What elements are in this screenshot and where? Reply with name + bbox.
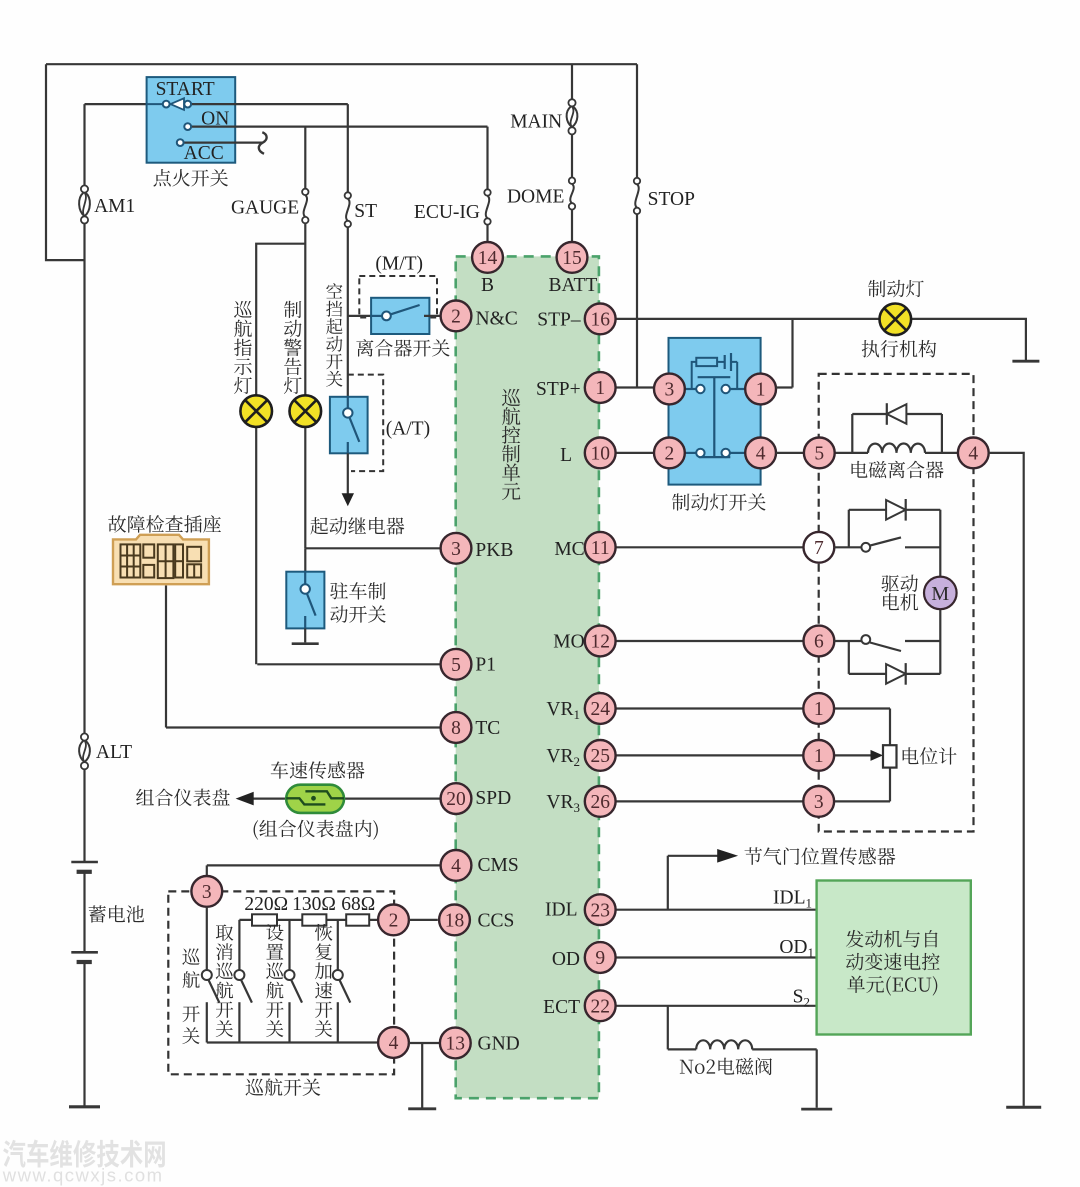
svg-text:130Ω: 130Ω	[292, 894, 336, 915]
svg-text:ECT: ECT	[543, 997, 580, 1018]
svg-text:1: 1	[756, 380, 766, 401]
wire clutch switch to pin2	[424, 315, 441, 317]
cruise indicator lamp 巡航指示灯	[240, 395, 272, 427]
svg-text:ECU-IG: ECU-IG	[414, 202, 480, 223]
svg-text:16: 16	[590, 310, 610, 331]
pin 3 cruise	[191, 876, 222, 907]
svg-text:2: 2	[451, 307, 461, 328]
label 恢复加速开关 vertical	[315, 924, 333, 1037]
ACC wire break squiggle	[259, 132, 267, 154]
ignition ACC contact	[177, 139, 184, 146]
wire clutch switch branch	[348, 315, 371, 317]
svg-text:13: 13	[446, 1034, 466, 1055]
parking brake contact and blade	[307, 594, 316, 616]
arrow potentiometer wiper	[871, 750, 884, 761]
speed sensor 车速传感器 box	[286, 785, 344, 813]
pin 15 BATT	[557, 242, 588, 273]
ground parking brake switch	[292, 642, 319, 645]
svg-text:8: 8	[451, 718, 461, 739]
wire GAUGE to warning lamps	[256, 223, 305, 395]
pin 12 MO	[585, 626, 616, 657]
arrow to starter relay	[342, 493, 354, 506]
wire electromagnetic clutch row	[835, 414, 958, 453]
svg-text:3: 3	[665, 380, 675, 401]
pin 25 VR2	[585, 740, 616, 771]
svg-text:www.qcwxjs.com: www.qcwxjs.com	[2, 1165, 164, 1186]
svg-text:ALT: ALT	[96, 742, 132, 763]
pin 1 brake switch	[745, 374, 776, 405]
pin 4 brake switch	[745, 438, 776, 469]
wire left frame down to AM1 line	[46, 64, 85, 260]
svg-text:23: 23	[590, 900, 610, 921]
brake warning lamp 制动警告灯	[290, 395, 322, 427]
wire cruise indicator lamp down to P1 line	[255, 427, 257, 665]
wire SPD row	[344, 797, 441, 799]
A/T switch contact and blade	[350, 418, 360, 442]
pin 4 cruise	[378, 1027, 409, 1058]
svg-text:DOME: DOME	[507, 187, 564, 208]
svg-text:9: 9	[595, 948, 605, 969]
label 节气门位置传感器	[745, 847, 896, 865]
svg-text:20: 20	[446, 789, 466, 810]
fuse MAIN	[568, 99, 575, 106]
wire OD row	[616, 956, 817, 958]
wire MO row	[616, 640, 804, 642]
pin 14 B	[472, 242, 503, 273]
drive motor M circle	[924, 577, 957, 610]
label ECU text	[846, 930, 938, 948]
wire brake warning lamp down to PKB junction	[304, 427, 306, 549]
pin 9 OD	[585, 942, 616, 973]
label 执行机构	[862, 340, 936, 358]
wire CCS row	[409, 919, 438, 921]
pin 4 clutch right	[958, 438, 989, 469]
svg-text:M: M	[931, 583, 949, 605]
pin 2 brake switch	[654, 438, 685, 469]
svg-text:MAIN: MAIN	[510, 112, 562, 133]
svg-text:GAUGE: GAUGE	[231, 197, 299, 218]
svg-text:4: 4	[451, 856, 461, 877]
wire N&C row	[440, 315, 442, 317]
pin 20 SPD	[441, 783, 472, 814]
svg-text:GND: GND	[478, 1034, 520, 1055]
ground brake light	[1012, 360, 1039, 363]
svg-text:5: 5	[451, 655, 461, 676]
wire ECT row	[616, 1005, 817, 1007]
svg-text:68Ω: 68Ω	[341, 894, 375, 915]
label 驻车制动开关	[330, 582, 385, 599]
arrow to throttle position sensor	[717, 849, 738, 863]
label 车速传感器	[271, 761, 365, 779]
wire CMS row	[207, 865, 441, 876]
actuator dashed box	[819, 374, 974, 832]
svg-text:26: 26	[590, 792, 610, 813]
label 巡航指示灯 vertical	[234, 301, 252, 394]
inductor 电磁离合器	[868, 444, 925, 453]
svg-text:PKB: PKB	[475, 540, 513, 561]
pin 2 cruise	[378, 905, 409, 936]
svg-text:15: 15	[562, 248, 582, 269]
wire IDL row	[616, 856, 817, 910]
wire top bus from ignition frame to STOP	[46, 63, 637, 65]
wire PKB row	[305, 547, 440, 549]
pin 3 pot bottom	[803, 786, 834, 817]
wire STP- row to brake light and ground	[616, 319, 1026, 388]
svg-text:4: 4	[968, 444, 978, 465]
brake switch internal wiring	[685, 388, 696, 390]
svg-text:10: 10	[590, 444, 610, 465]
label 驱动电机	[881, 575, 918, 593]
svg-text:220Ω: 220Ω	[244, 894, 288, 915]
svg-text:6: 6	[814, 632, 824, 653]
wire ECU-IG line down to pin14	[486, 127, 488, 242]
pin 10 L	[585, 438, 616, 469]
svg-text:2: 2	[665, 444, 675, 465]
wire ACC stub	[184, 142, 262, 144]
ignition ON contact	[184, 123, 191, 130]
svg-text:25: 25	[590, 746, 610, 767]
fuse ALT	[81, 733, 88, 740]
wire VR1 row	[616, 709, 890, 746]
wire L row	[616, 452, 653, 454]
brake switch RC snubber	[692, 362, 697, 389]
wire parking brake to ground	[304, 628, 306, 642]
label 巡航控制单元 vertical	[502, 389, 520, 500]
ignition START contact	[147, 103, 163, 105]
svg-text:1: 1	[595, 378, 605, 399]
svg-text:12: 12	[590, 632, 610, 653]
pin 18 CCS	[439, 905, 470, 936]
A/T neutral start switch box	[330, 397, 368, 454]
fuse ECU-IG	[484, 189, 490, 195]
wire connector to TC line	[165, 586, 167, 728]
brake light switch box 制动灯开关	[669, 338, 761, 485]
wire MAIN line down to pin15	[571, 64, 573, 242]
svg-text:SPD: SPD	[475, 788, 511, 809]
watermark 汽车维修技术网	[3, 1140, 165, 1168]
label 巡航开关 vertical	[182, 948, 199, 1044]
svg-text:START: START	[156, 79, 215, 100]
svg-text:B: B	[481, 275, 494, 296]
svg-text:11: 11	[591, 538, 610, 559]
svg-text:(A/T): (A/T)	[386, 419, 430, 440]
ignition switch box 点火开关	[147, 77, 236, 163]
wire GAUGE branch	[304, 127, 306, 189]
svg-text:7: 7	[814, 538, 824, 559]
svg-text:(M/T): (M/T)	[375, 253, 423, 274]
pin 5 clutch	[804, 438, 835, 469]
svg-text:STP+: STP+	[536, 379, 581, 400]
cruise switch contacts and blades	[208, 980, 219, 1003]
wire speed sensor to combination meter arrow	[252, 797, 286, 799]
fuse AM1	[81, 185, 88, 192]
brake switch contacts	[696, 385, 704, 393]
label (组合仪表盘内)	[254, 820, 378, 840]
svg-text:18: 18	[445, 911, 465, 932]
resistor 130Ω	[302, 914, 326, 925]
pin 3 PKB	[441, 533, 472, 564]
diode motor lower	[886, 664, 906, 684]
svg-text:CMS: CMS	[478, 855, 519, 876]
wire START contact to ST line	[191, 103, 348, 105]
ground GND	[408, 1107, 436, 1110]
label 制动灯	[868, 280, 924, 298]
wire VR3 row	[616, 768, 890, 802]
potentiometer 电位计 body	[883, 745, 897, 767]
svg-text:1: 1	[814, 746, 824, 767]
pin 1 pot wiper	[803, 740, 834, 771]
svg-text:3: 3	[451, 539, 461, 560]
resistor 220Ω	[252, 914, 277, 925]
label 设置巡航开关 vertical	[266, 924, 284, 1037]
svg-text:5: 5	[814, 444, 824, 465]
svg-text:L: L	[560, 445, 572, 466]
battery 蓄电池	[71, 861, 98, 864]
ground right rail	[1006, 1106, 1041, 1109]
wire CCS resistor chain	[239, 919, 378, 921]
svg-text:TC: TC	[475, 718, 500, 739]
svg-text:ON: ON	[201, 109, 229, 130]
cruise switch dashed box 巡航开关	[168, 891, 394, 1074]
diode motor upper	[886, 500, 906, 520]
wire P1 row	[257, 663, 440, 665]
wire brake switch pin1 up to STP- line	[776, 386, 793, 388]
dashed box (A/T)	[348, 375, 383, 472]
pin 5 P1	[441, 649, 472, 680]
wire motor upper branch	[834, 510, 940, 577]
wire VR2 row	[616, 754, 871, 756]
label No2电磁阀	[680, 1058, 772, 1076]
label 电磁离合器	[852, 461, 944, 479]
label 离合器开关	[356, 339, 449, 357]
pin 1 pot top	[803, 693, 834, 724]
wire STOP line down to STP+ line	[636, 64, 638, 387]
label 制动灯开关	[672, 493, 766, 511]
inductor No2 电磁阀	[696, 1040, 752, 1049]
label 巡航开关 caption	[246, 1078, 321, 1096]
svg-text:4: 4	[756, 444, 766, 465]
fault check connector cells	[121, 544, 202, 578]
wire GND row	[409, 1042, 440, 1044]
wire ST line down	[347, 104, 349, 397]
svg-text:STOP: STOP	[648, 189, 695, 210]
pin 8 TC	[441, 712, 472, 743]
motor lower switch	[861, 635, 870, 644]
ground No2 solenoid	[801, 1108, 832, 1111]
fault check connector 故障检查插座 box	[113, 535, 209, 584]
label 空挡起动开关 vertical	[326, 283, 342, 387]
svg-text:CCS: CCS	[478, 911, 515, 932]
svg-text:P1: P1	[475, 655, 496, 676]
svg-text:OD: OD	[552, 949, 580, 970]
pin 2 N&C	[441, 301, 472, 332]
label 组合仪表盘	[136, 789, 230, 807]
ECU box 发动机与自动变速电控单元	[817, 881, 971, 1035]
resistor 68Ω	[346, 914, 369, 925]
wire TC row	[166, 726, 441, 728]
clutch switch contact and blade	[371, 315, 382, 317]
wire START feed from AM1 line to ignition switch	[85, 103, 147, 105]
pin 1 STP+	[585, 372, 616, 403]
clutch switch box 离合器开关	[371, 298, 429, 334]
wire A/T switch to starter relay arrow	[347, 453, 349, 494]
label 点火开关	[154, 169, 228, 186]
label 蓄电池	[89, 905, 145, 923]
wire cruise pin3 to main switch	[206, 907, 208, 970]
wire pin4 to right rail	[989, 453, 1024, 1106]
svg-text:4: 4	[389, 1033, 399, 1054]
svg-text:AM1: AM1	[94, 196, 135, 217]
svg-text:1: 1	[814, 699, 824, 720]
pin 6 motor down	[804, 626, 835, 657]
svg-text:N&C: N&C	[476, 309, 518, 330]
svg-text:BATT: BATT	[549, 275, 598, 296]
wire cruise bottom bus	[207, 1041, 378, 1043]
pin 22 ECT	[585, 990, 616, 1021]
wire motor lower branch	[834, 609, 940, 674]
svg-text:3: 3	[814, 792, 824, 813]
wire AM1/ALT/battery main left line	[83, 104, 85, 862]
wire brake switch pin4 to pin5	[776, 452, 804, 454]
svg-text:STP–: STP–	[537, 310, 581, 331]
dashed box (M/T)	[359, 276, 437, 318]
pin 11 MC	[585, 532, 616, 563]
pin 4 CMS	[441, 850, 472, 881]
pin 13 GND	[440, 1028, 471, 1059]
pin 23 IDL	[585, 894, 616, 925]
fuse STOP	[634, 178, 640, 184]
label 故障检查插座	[108, 515, 221, 533]
pin 3 brake switch	[654, 374, 685, 405]
speed sensor internal symbol	[286, 791, 344, 804]
svg-text:22: 22	[590, 996, 610, 1017]
wire parking brake branch down	[304, 548, 306, 571]
svg-text:14: 14	[478, 248, 498, 269]
label 电位计	[903, 747, 957, 764]
svg-text:MO: MO	[553, 632, 584, 653]
svg-text:3: 3	[202, 882, 212, 903]
pin 26 VR3	[585, 786, 616, 817]
wire GND ground drop	[421, 1043, 423, 1108]
pin 24 VR1	[585, 693, 616, 724]
label 取消巡航开关 vertical	[216, 924, 234, 1037]
fuse GAUGE	[302, 189, 308, 195]
svg-text:24: 24	[590, 699, 610, 720]
brake light lamp 制动灯	[880, 304, 912, 336]
wire MC row	[616, 546, 804, 548]
fuse ST	[345, 192, 351, 198]
wire into parking brake switch	[304, 572, 306, 585]
wire into A/T switch	[347, 397, 349, 408]
wire resistor taps down	[239, 920, 337, 970]
wire ON contact to ECU-IG line	[191, 125, 487, 127]
cruise control unit box 巡航控制单元	[456, 256, 599, 1098]
arrow to combination meter	[236, 792, 254, 806]
pin 7 motor up	[804, 532, 835, 563]
svg-text:ST: ST	[354, 201, 377, 222]
label 起动继电器	[310, 517, 404, 535]
wire No2 solenoid branch	[668, 1006, 817, 1108]
label 制动警告灯 vertical	[284, 301, 302, 394]
diode clutch flyback	[887, 404, 907, 424]
fuse DOME	[569, 178, 575, 184]
parking brake switch box 驻车制动开关	[286, 572, 324, 629]
svg-text:ACC: ACC	[184, 143, 224, 164]
motor upper switch	[861, 543, 870, 552]
pin 16 STP-	[585, 304, 616, 335]
svg-text:2: 2	[389, 911, 399, 932]
svg-text:IDL: IDL	[545, 899, 578, 920]
svg-text:MC: MC	[554, 539, 584, 560]
ground battery	[69, 1105, 100, 1108]
wire STP+ row	[616, 386, 653, 388]
